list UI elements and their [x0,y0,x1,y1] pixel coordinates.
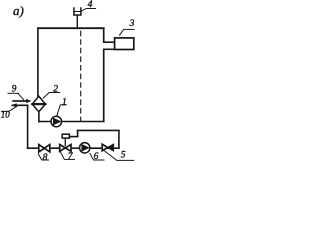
elevator 2 upper cone [32,96,45,104]
valve 8 left wedge [39,145,45,152]
pump 1 circle [51,116,62,127]
wire: stub from boiler bottom [103,48,115,50]
wire: bypass top run [77,129,120,131]
svg-text:3: 3 [129,19,135,29]
arrowhead of line 9 [26,99,31,103]
heater box 3 [115,38,134,50]
return line 10 [12,104,29,106]
elevator 2 lower cone [32,104,45,112]
control valve 7 left wedge [60,145,66,152]
wire: bypass riser right [118,130,120,149]
valve 5 left wedge [102,144,108,151]
valve 8 right wedge [44,145,50,152]
pump 6 circle [80,143,90,153]
wire: right pipe upper segment [103,27,105,43]
svg-text:6: 6 [94,152,99,162]
arrowhead of line 10 [11,103,17,107]
pump 6 impeller triangle [81,144,89,152]
pump 1 impeller triangle [53,118,61,126]
label 9 [8,84,25,100]
supply line 9 [12,100,28,102]
label 5 [103,150,134,161]
wire: pump 1 horizontal line [38,121,104,123]
dashed centre line [80,31,82,121]
label 10 [1,106,18,120]
wire: stub to boiler top [103,41,115,43]
label 4 [81,0,96,11]
svg-text:1: 1 [62,98,67,108]
label 3 [119,19,134,35]
label 2 [43,84,60,98]
svg-text:а): а) [13,3,24,18]
wire: tank stub [76,15,78,28]
control valve 7 right wedge [65,145,71,152]
wire: elevator outlet drop [38,111,40,122]
control valve 7 stem [64,137,66,146]
wire: left riser pipe [37,27,39,97]
tank water level [74,11,81,13]
wire: left return riser [27,105,29,149]
wire: bottom return line [27,147,120,149]
wire: bypass left drop [77,130,79,137]
svg-text:5: 5 [121,150,126,160]
svg-text:8: 8 [43,153,48,163]
label 6 [90,152,105,162]
elevator 2 throat bar [32,103,46,105]
wire: right pipe lower segment [103,49,105,123]
label 8 [38,153,49,163]
label 7 [60,151,75,162]
valve 5 right wedge [108,144,114,151]
control valve 7 top port box [62,134,69,138]
svg-text:7: 7 [68,152,74,162]
label 1 [57,98,67,116]
expansion tank 4 [74,7,81,15]
wire: bypass link to valve 7 port [70,136,79,138]
wire: top pipe [37,27,105,29]
